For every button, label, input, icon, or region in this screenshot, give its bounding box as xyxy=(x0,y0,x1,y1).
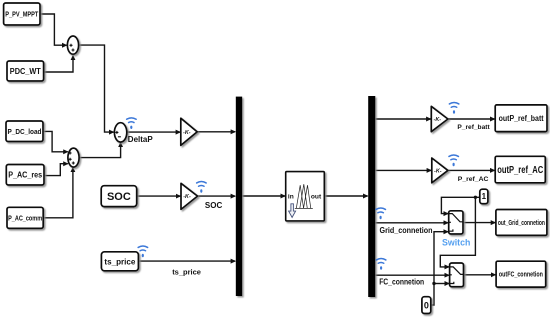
svg-text:P_DC_load: P_DC_load xyxy=(8,127,42,136)
svg-text:outP_ref_batt: outP_ref_batt xyxy=(499,114,544,123)
svg-text:out: out xyxy=(311,194,322,201)
svg-text:P_AC_comm: P_AC_comm xyxy=(8,215,42,222)
svg-text:P_ref_batt: P_ref_batt xyxy=(457,124,490,131)
svg-text:ts_price: ts_price xyxy=(104,256,135,266)
svg-text:outP_ref_AC: outP_ref_AC xyxy=(497,165,543,176)
svg-text:P_ref_AC: P_ref_AC xyxy=(458,176,489,183)
svg-text:-K-: -K- xyxy=(183,130,191,136)
svg-text:outFC_connetion: outFC_connetion xyxy=(499,270,543,279)
svg-text:ts_price: ts_price xyxy=(172,268,201,277)
svg-text:Grid_connetion: Grid_connetion xyxy=(380,226,433,235)
svg-text:1: 1 xyxy=(482,192,487,201)
svg-text:out_Grid_connetion: out_Grid_connetion xyxy=(498,220,545,227)
svg-text:DeltaP: DeltaP xyxy=(128,135,154,144)
svg-text:PDC_WT: PDC_WT xyxy=(10,67,41,76)
svg-text:in: in xyxy=(288,194,294,201)
svg-text:Switch: Switch xyxy=(442,238,470,248)
svg-text:P_PV_MPPT: P_PV_MPPT xyxy=(5,10,38,19)
svg-text:SOC: SOC xyxy=(107,191,131,203)
svg-text:-K-: -K- xyxy=(434,117,442,123)
svg-text:P_AC_res: P_AC_res xyxy=(8,171,42,180)
svg-text:-K-: -K- xyxy=(434,169,442,175)
svg-text:-K-: -K- xyxy=(183,194,191,200)
svg-text:SOC: SOC xyxy=(205,201,223,210)
svg-text:0: 0 xyxy=(424,300,429,310)
svg-text:FC_connetion: FC_connetion xyxy=(379,278,424,287)
